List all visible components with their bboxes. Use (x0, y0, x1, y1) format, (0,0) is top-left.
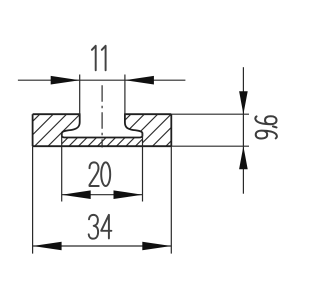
dim 11: right arrow (125, 76, 154, 85)
T-slot cavity outline with flares, bulges and floor (62, 113, 143, 137)
profile outline: right edge (170, 114, 172, 146)
profile outline: left edge (32, 114, 34, 146)
dim 34: right arrow (142, 242, 171, 251)
dim 20: extension line left (61, 133, 63, 202)
dim 11: extension line left (79, 75, 81, 116)
dim 9,6: top arrow (pointing down) (239, 91, 248, 114)
dim 9,6: extension line top (171, 113, 249, 115)
dim 20: dimension line (62, 194, 143, 196)
dim 9,6: bottom arrow (pointing up) (239, 146, 248, 169)
profile outline: top edge left segment (33, 113, 80, 115)
dim 34: text "34" (89, 215, 112, 239)
hatching bottom strip (46, 136, 155, 150)
dim 9,6: extension line bottom (171, 145, 249, 147)
dim 20: text "20" (90, 162, 111, 186)
dim 9,6: dimension line (242, 67, 244, 194)
dim 34: left arrow (33, 242, 62, 251)
dim 20: right arrow (114, 190, 143, 199)
hatching right block (85, 100, 225, 160)
dim 11: text "11" (92, 46, 106, 71)
dim 34: dimension line (33, 245, 172, 247)
dim 20: extension line right (142, 133, 144, 202)
centerline (dash-dot) (101, 85, 103, 147)
dim 11: extension line right (124, 75, 126, 116)
dim 34: extension line right (170, 146, 172, 253)
profile outline: bottom edge (33, 145, 172, 147)
profile outline: top edge right segment (125, 113, 171, 115)
dim 11: left arrow (51, 76, 80, 85)
dim 9,6: text "9,6" rotated (255, 116, 277, 138)
dim 34: extension line left (32, 146, 34, 253)
dim 11: dimension line (18, 79, 186, 81)
hatching left block (0, 100, 134, 160)
dim 20: left arrow (62, 190, 91, 199)
